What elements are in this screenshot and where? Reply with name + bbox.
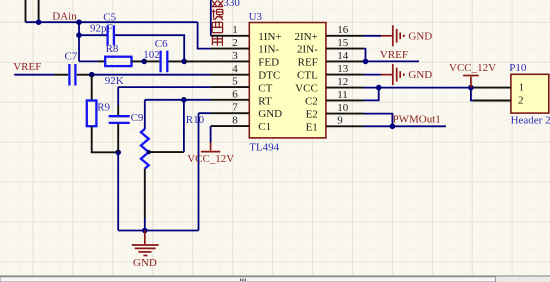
power port VCC_12V (mid) — [210, 143, 212, 151]
net label chinese vertical text (drawn glyphs) — [212, 1, 223, 46]
svg-text:2: 2 — [232, 37, 238, 49]
wire pin1 net vertical — [210, 0, 212, 36]
pin 13 — [326, 74, 364, 76]
power ground symbol (pin13) — [381, 74, 392, 76]
svg-text:14: 14 — [337, 50, 349, 62]
wire pin7 GND net — [199, 113, 211, 230]
svg-text:8: 8 — [232, 115, 238, 127]
wire C5 right to vertical — [115, 35, 184, 61]
svg-text:9: 9 — [337, 115, 343, 127]
node R10 tap — [147, 150, 151, 154]
svg-text:13: 13 — [337, 63, 349, 75]
wire R9 top lead — [91, 75, 93, 101]
svg-text:GND: GND — [133, 257, 157, 269]
ground symbol GND (bottom) — [144, 231, 146, 245]
svg-text:330: 330 — [223, 0, 240, 9]
resistor R10 zigzag — [141, 129, 149, 169]
svg-text:REF: REF — [298, 56, 318, 68]
svg-text:C7: C7 — [65, 51, 78, 63]
svg-text:1: 1 — [519, 82, 525, 94]
svg-text:C9: C9 — [131, 112, 144, 124]
wire VREF to pin4 — [92, 74, 211, 76]
wire to C5 left — [79, 34, 107, 36]
wire RT down to R10 — [144, 100, 146, 129]
svg-text:E2: E2 — [306, 109, 318, 121]
node VREF junction — [363, 59, 369, 65]
svg-text:6: 6 — [232, 89, 238, 101]
pin 1 — [211, 35, 250, 37]
power port VCC_12V (right) — [470, 77, 472, 88]
pin 4 — [211, 74, 250, 76]
wire C7 left pin — [54, 74, 68, 76]
scrollbar gripper dots — [240, 279, 241, 281]
svg-text:12: 12 — [337, 76, 348, 88]
node DAin/R8 branch junction — [76, 19, 82, 25]
node C5 branch junction — [76, 32, 82, 38]
capacitor C6 — [161, 51, 168, 73]
svg-text:PWMOut1: PWMOut1 — [393, 114, 441, 126]
capacitor C9 — [109, 116, 130, 123]
svg-text:R10: R10 — [186, 114, 205, 126]
wire C6 right pin — [168, 60, 184, 62]
svg-text:FED: FED — [258, 56, 279, 68]
pin 5 — [211, 86, 250, 88]
wire DAin to pin2 — [198, 22, 211, 48]
svg-text:U3: U3 — [249, 11, 263, 23]
svg-text:GND: GND — [408, 30, 432, 42]
wire tap vertical up to RT net — [183, 100, 185, 152]
svg-text:92K: 92K — [105, 75, 124, 87]
resistor R8 — [105, 57, 131, 66]
power ground symbol (pin16) — [381, 35, 392, 37]
svg-text:DAin: DAin — [52, 11, 77, 23]
svg-text:1IN-: 1IN- — [258, 44, 279, 56]
P10 pin 2 — [473, 100, 511, 102]
wire R9 bottom lead — [92, 126, 119, 152]
wire vertical DAin to R8 — [78, 22, 80, 61]
node ground rail junction — [142, 228, 148, 234]
wire pin16 to GND port — [364, 35, 381, 37]
capacitor C7 — [69, 64, 75, 86]
node VCC port junction — [468, 85, 474, 91]
svg-text:1: 1 — [232, 24, 238, 36]
wire C7 right pin — [77, 74, 92, 76]
wire VREF left — [14, 74, 54, 76]
svg-text:RT: RT — [258, 95, 272, 107]
scrollbar strip — [0, 276, 550, 282]
wire top-left vertical stub 2 — [38, 0, 40, 22]
svg-text:16: 16 — [337, 24, 349, 36]
wire pin6 RT net — [145, 99, 211, 101]
pin 16 — [326, 35, 364, 37]
pin 2 — [211, 48, 250, 50]
wire pin13 to GND port — [364, 74, 381, 76]
node pin11 tie junction — [376, 85, 382, 91]
wire R10 tap to vertical — [149, 151, 184, 153]
wire C9 bottom lead — [117, 124, 119, 152]
wire VREF right — [364, 60, 419, 62]
wire pin9 PWMOut1 — [364, 125, 446, 127]
svg-text:92pF: 92pF — [90, 23, 113, 35]
pin 9 — [326, 125, 364, 127]
svg-text:E1: E1 — [306, 121, 318, 133]
svg-text:VCC_12V: VCC_12V — [187, 153, 234, 165]
svg-text:102: 102 — [143, 49, 160, 61]
svg-text:P10: P10 — [509, 62, 527, 74]
wire ground rail horizontal — [118, 230, 198, 232]
pin 3 — [211, 60, 250, 62]
svg-text:3: 3 — [232, 50, 238, 62]
svg-text:VREF: VREF — [13, 61, 41, 73]
wire C6 left pin — [144, 60, 159, 62]
svg-text:2: 2 — [518, 95, 524, 107]
svg-text:C5: C5 — [103, 11, 116, 23]
pin 12 — [326, 87, 364, 89]
svg-text:TL494: TL494 — [249, 141, 279, 153]
node R9/C9 junction — [115, 150, 121, 156]
wire R8 left — [79, 60, 98, 62]
svg-text:15: 15 — [337, 37, 349, 49]
svg-text:11: 11 — [337, 89, 348, 101]
wire to pin3 — [184, 60, 211, 62]
node C6/C5 junction — [181, 59, 187, 65]
wire VCC down to P10 pin2 — [471, 88, 473, 101]
svg-text:GND: GND — [408, 69, 432, 81]
svg-text:C2: C2 — [305, 95, 318, 107]
pin 8 — [211, 125, 250, 127]
capacitor C5 — [108, 25, 114, 45]
svg-text:7: 7 — [232, 102, 238, 114]
wire pin8 to VCC port — [210, 126, 212, 142]
wire pin10 down to pin9 net — [364, 114, 393, 127]
wire C9 net down to ground rail — [117, 152, 119, 230]
svg-text:CTL: CTL — [297, 70, 318, 82]
scrollbar thumb — [0, 277, 496, 282]
pin 15 — [326, 48, 364, 50]
svg-text:2IN+: 2IN+ — [294, 31, 317, 43]
svg-text:Header 2: Header 2 — [511, 114, 550, 126]
P10 pin 1 — [473, 87, 511, 89]
svg-text:DTC: DTC — [258, 70, 280, 82]
node PWMOut1 junction — [390, 124, 396, 130]
svg-text:VCC_12V: VCC_12V — [449, 62, 496, 74]
svg-text:10: 10 — [337, 102, 349, 114]
resistor R9 — [87, 101, 97, 127]
node RT tap junction — [181, 97, 187, 103]
wire top-left vertical stub 1 — [25, 0, 27, 22]
wire DAin horizontal — [26, 21, 198, 23]
pin 11 — [326, 99, 364, 101]
wire R10 bottom lead — [144, 169, 146, 218]
svg-text:C1: C1 — [258, 121, 271, 133]
op-amp U1? no: IC U3 TL494 body — [249, 23, 326, 138]
wire pin12 VCC net — [364, 87, 471, 89]
svg-text:4: 4 — [232, 63, 238, 75]
wire pin5 CT net — [118, 86, 211, 88]
svg-text:5: 5 — [232, 76, 238, 88]
svg-text:1IN+: 1IN+ — [258, 31, 281, 43]
svg-text:CT: CT — [258, 82, 272, 94]
pin 6 — [211, 99, 250, 101]
svg-text:VCC: VCC — [295, 83, 318, 95]
wire pin11 up to VCC — [364, 88, 379, 101]
svg-text:VREF: VREF — [380, 49, 408, 61]
wire C9 top lead — [117, 87, 119, 105]
pin 10 — [326, 113, 364, 115]
svg-text:R8: R8 — [106, 43, 119, 55]
node R8/C6 junction — [141, 59, 147, 65]
wire R8 right — [132, 60, 145, 62]
svg-text:R9: R9 — [97, 101, 110, 113]
wire pin15 down to pin14 net — [364, 49, 366, 62]
node VREF/R9 junction — [89, 72, 95, 78]
svg-text:2IN-: 2IN- — [297, 44, 318, 56]
svg-text:GND: GND — [258, 108, 282, 120]
pin 7 — [211, 112, 250, 114]
pin 14 — [326, 60, 364, 62]
connector P10 body — [511, 74, 549, 113]
node DAin junction at stub2 — [36, 19, 42, 25]
